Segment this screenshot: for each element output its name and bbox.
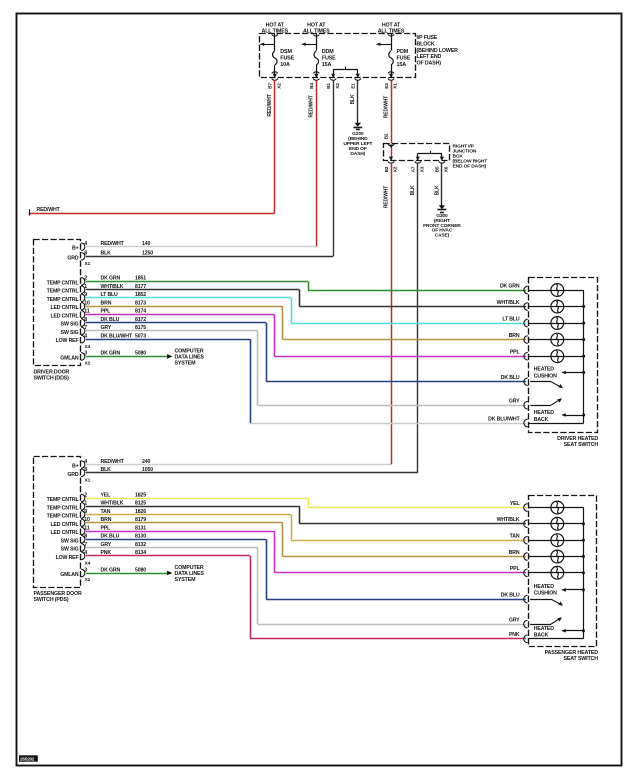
svg-text:DRIVER DOOR: DRIVER DOOR xyxy=(34,370,70,376)
svg-text:X2: X2 xyxy=(85,361,91,367)
svg-text:TAN: TAN xyxy=(510,534,520,540)
svg-text:8125: 8125 xyxy=(135,501,146,507)
svg-text:DATA LINES: DATA LINES xyxy=(175,354,205,360)
svg-text:X6: X6 xyxy=(444,166,450,172)
svg-text:B+: B+ xyxy=(72,464,79,470)
svg-text:DK BLU: DK BLU xyxy=(101,534,120,540)
svg-text:SEAT SWITCH: SEAT SWITCH xyxy=(564,442,599,448)
svg-text:BLOCK: BLOCK xyxy=(417,41,435,47)
svg-text:LED CNTRL: LED CNTRL xyxy=(50,305,79,311)
svg-text:RED/WHT: RED/WHT xyxy=(267,94,273,116)
svg-text:5073: 5073 xyxy=(135,333,146,339)
svg-text:SWITCH (PDS): SWITCH (PDS) xyxy=(34,597,69,603)
svg-text:B2: B2 xyxy=(384,166,390,172)
svg-text:X2: X2 xyxy=(276,83,282,89)
svg-text:10A: 10A xyxy=(280,62,290,68)
svg-text:OF DASH): OF DASH) xyxy=(417,61,442,67)
svg-text:PPL: PPL xyxy=(510,566,521,572)
svg-text:A7: A7 xyxy=(411,166,417,172)
svg-text:TEMP CNTRL: TEMP CNTRL xyxy=(47,497,80,503)
svg-text:DATA LINES: DATA LINES xyxy=(175,571,205,577)
svg-text:8: 8 xyxy=(84,534,87,540)
svg-text:LED CNTRL: LED CNTRL xyxy=(50,530,79,536)
svg-text:END OF DASH): END OF DASH) xyxy=(453,164,487,170)
svg-text:B7: B7 xyxy=(268,83,274,89)
svg-text:4: 4 xyxy=(84,333,87,339)
svg-text:DK BLU: DK BLU xyxy=(501,375,520,381)
svg-text:I/P FUSE: I/P FUSE xyxy=(417,35,438,41)
svg-text:RED/WHT: RED/WHT xyxy=(37,207,61,213)
svg-text:FUSE: FUSE xyxy=(280,56,294,62)
svg-text:11: 11 xyxy=(84,525,89,531)
svg-text:8: 8 xyxy=(84,251,87,257)
svg-text:PPL: PPL xyxy=(510,350,521,356)
svg-text:BRN: BRN xyxy=(101,300,112,306)
svg-text:TEMP CNTRL: TEMP CNTRL xyxy=(47,280,80,286)
svg-text:GMLAN: GMLAN xyxy=(60,355,79,361)
svg-text:DASH): DASH) xyxy=(350,151,365,157)
svg-text:SW SIG: SW SIG xyxy=(61,330,79,336)
svg-text:X1: X1 xyxy=(85,477,91,483)
svg-text:SEAT SWITCH: SEAT SWITCH xyxy=(563,656,598,662)
svg-text:GRD: GRD xyxy=(67,472,78,478)
svg-text:SYSTEM: SYSTEM xyxy=(175,577,197,583)
svg-text:YEL: YEL xyxy=(101,492,112,498)
svg-text:X4: X4 xyxy=(85,344,91,350)
svg-text:8173: 8173 xyxy=(135,300,146,306)
svg-text:TEMP CNTRL: TEMP CNTRL xyxy=(47,289,80,295)
svg-text:SW SIG: SW SIG xyxy=(61,538,79,544)
svg-text:LOW REF: LOW REF xyxy=(56,555,79,561)
svg-text:HEATED: HEATED xyxy=(534,367,554,373)
svg-text:HEATED: HEATED xyxy=(534,584,554,590)
svg-text:WHT/BLK: WHT/BLK xyxy=(497,300,520,306)
svg-text:WHT/BLK: WHT/BLK xyxy=(101,501,124,507)
svg-text:GRY: GRY xyxy=(509,618,520,624)
svg-text:SW SIG: SW SIG xyxy=(61,322,79,328)
svg-text:X1: X1 xyxy=(393,83,399,89)
svg-text:1250: 1250 xyxy=(142,251,153,257)
svg-text:DK BLU: DK BLU xyxy=(501,593,520,599)
svg-text:5080: 5080 xyxy=(135,567,146,573)
svg-text:B4: B4 xyxy=(309,83,315,89)
svg-text:15A: 15A xyxy=(397,62,407,68)
svg-text:COMPUTER: COMPUTER xyxy=(175,565,204,571)
svg-text:LED CNTRL: LED CNTRL xyxy=(50,522,79,528)
svg-text:RED/WHT: RED/WHT xyxy=(383,96,389,118)
svg-text:DK GRN: DK GRN xyxy=(101,567,121,573)
svg-text:B1: B1 xyxy=(326,83,332,89)
svg-text:X2: X2 xyxy=(393,166,399,172)
svg-text:BLK: BLK xyxy=(434,185,440,195)
svg-text:PNK: PNK xyxy=(509,632,520,638)
svg-text:TEMP CNTRL: TEMP CNTRL xyxy=(47,297,80,303)
svg-text:B+: B+ xyxy=(72,246,79,252)
svg-text:SW SIG: SW SIG xyxy=(61,547,79,553)
svg-text:BLK: BLK xyxy=(101,251,112,257)
svg-text:WHT/BLK: WHT/BLK xyxy=(497,517,520,523)
svg-text:CASE): CASE) xyxy=(435,233,450,239)
svg-text:X2: X2 xyxy=(85,577,91,583)
svg-text:FUSE: FUSE xyxy=(397,56,411,62)
svg-text:E2: E2 xyxy=(384,83,390,89)
svg-text:DSM: DSM xyxy=(280,49,292,55)
svg-text:TEMP CNTRL: TEMP CNTRL xyxy=(47,505,80,511)
svg-text:CUSHION: CUSHION xyxy=(534,373,557,379)
svg-text:X2: X2 xyxy=(335,83,341,89)
svg-text:X3: X3 xyxy=(419,166,425,172)
svg-text:HEATED: HEATED xyxy=(534,626,554,632)
svg-text:PDM: PDM xyxy=(397,49,409,55)
svg-text:B2: B2 xyxy=(384,133,390,139)
svg-text:YEL: YEL xyxy=(510,501,521,507)
svg-text:LEFT END: LEFT END xyxy=(417,54,442,60)
svg-text:RED/WHT: RED/WHT xyxy=(309,95,315,117)
svg-text:CUSHION: CUSHION xyxy=(534,591,557,597)
svg-text:GRD: GRD xyxy=(67,255,78,261)
svg-text:BLK: BLK xyxy=(350,94,356,104)
svg-text:DDM: DDM xyxy=(322,49,334,55)
svg-text:3: 3 xyxy=(84,567,87,573)
svg-text:GMLAN: GMLAN xyxy=(60,572,79,578)
svg-text:PASSENGER DOOR: PASSENGER DOOR xyxy=(34,591,82,597)
svg-text:DK GRN: DK GRN xyxy=(500,283,520,289)
svg-text:HEATED: HEATED xyxy=(534,410,554,416)
svg-text:(BEHIND LOWER: (BEHIND LOWER xyxy=(417,48,459,54)
svg-text:1825: 1825 xyxy=(135,492,146,498)
svg-text:X4: X4 xyxy=(85,561,91,567)
svg-text:BACK: BACK xyxy=(534,633,549,639)
svg-text:LT BLU: LT BLU xyxy=(502,316,520,322)
svg-text:FUSE: FUSE xyxy=(322,56,336,62)
svg-text:PPL: PPL xyxy=(101,525,112,531)
svg-text:15A: 15A xyxy=(322,62,332,68)
svg-text:COMPUTER: COMPUTER xyxy=(175,348,204,354)
svg-text:LED CNTRL: LED CNTRL xyxy=(50,313,79,319)
svg-text:2: 2 xyxy=(84,492,87,498)
svg-text:DK BLU/WHT: DK BLU/WHT xyxy=(101,333,133,339)
svg-text:RED/WHT: RED/WHT xyxy=(383,186,389,208)
svg-text:E1: E1 xyxy=(351,83,357,89)
svg-text:SWITCH (DDS): SWITCH (DDS) xyxy=(34,376,70,382)
svg-text:265292: 265292 xyxy=(20,757,35,762)
svg-text:GRY: GRY xyxy=(509,399,520,405)
svg-text:BLK: BLK xyxy=(410,185,416,195)
svg-text:SYSTEM: SYSTEM xyxy=(175,361,197,367)
svg-text:B5: B5 xyxy=(435,166,441,172)
svg-text:BACK: BACK xyxy=(534,417,549,423)
svg-text:10: 10 xyxy=(84,300,90,306)
svg-text:DK BLU/WHT: DK BLU/WHT xyxy=(488,416,520,422)
svg-text:1: 1 xyxy=(84,501,87,507)
svg-text:8131: 8131 xyxy=(135,525,146,531)
svg-text:LOW REF: LOW REF xyxy=(56,338,79,344)
svg-text:X1: X1 xyxy=(85,261,91,267)
svg-text:BRN: BRN xyxy=(509,550,520,556)
svg-text:8130: 8130 xyxy=(135,534,146,540)
svg-text:BRN: BRN xyxy=(509,333,520,339)
svg-text:TEMP CNTRL: TEMP CNTRL xyxy=(47,514,80,520)
